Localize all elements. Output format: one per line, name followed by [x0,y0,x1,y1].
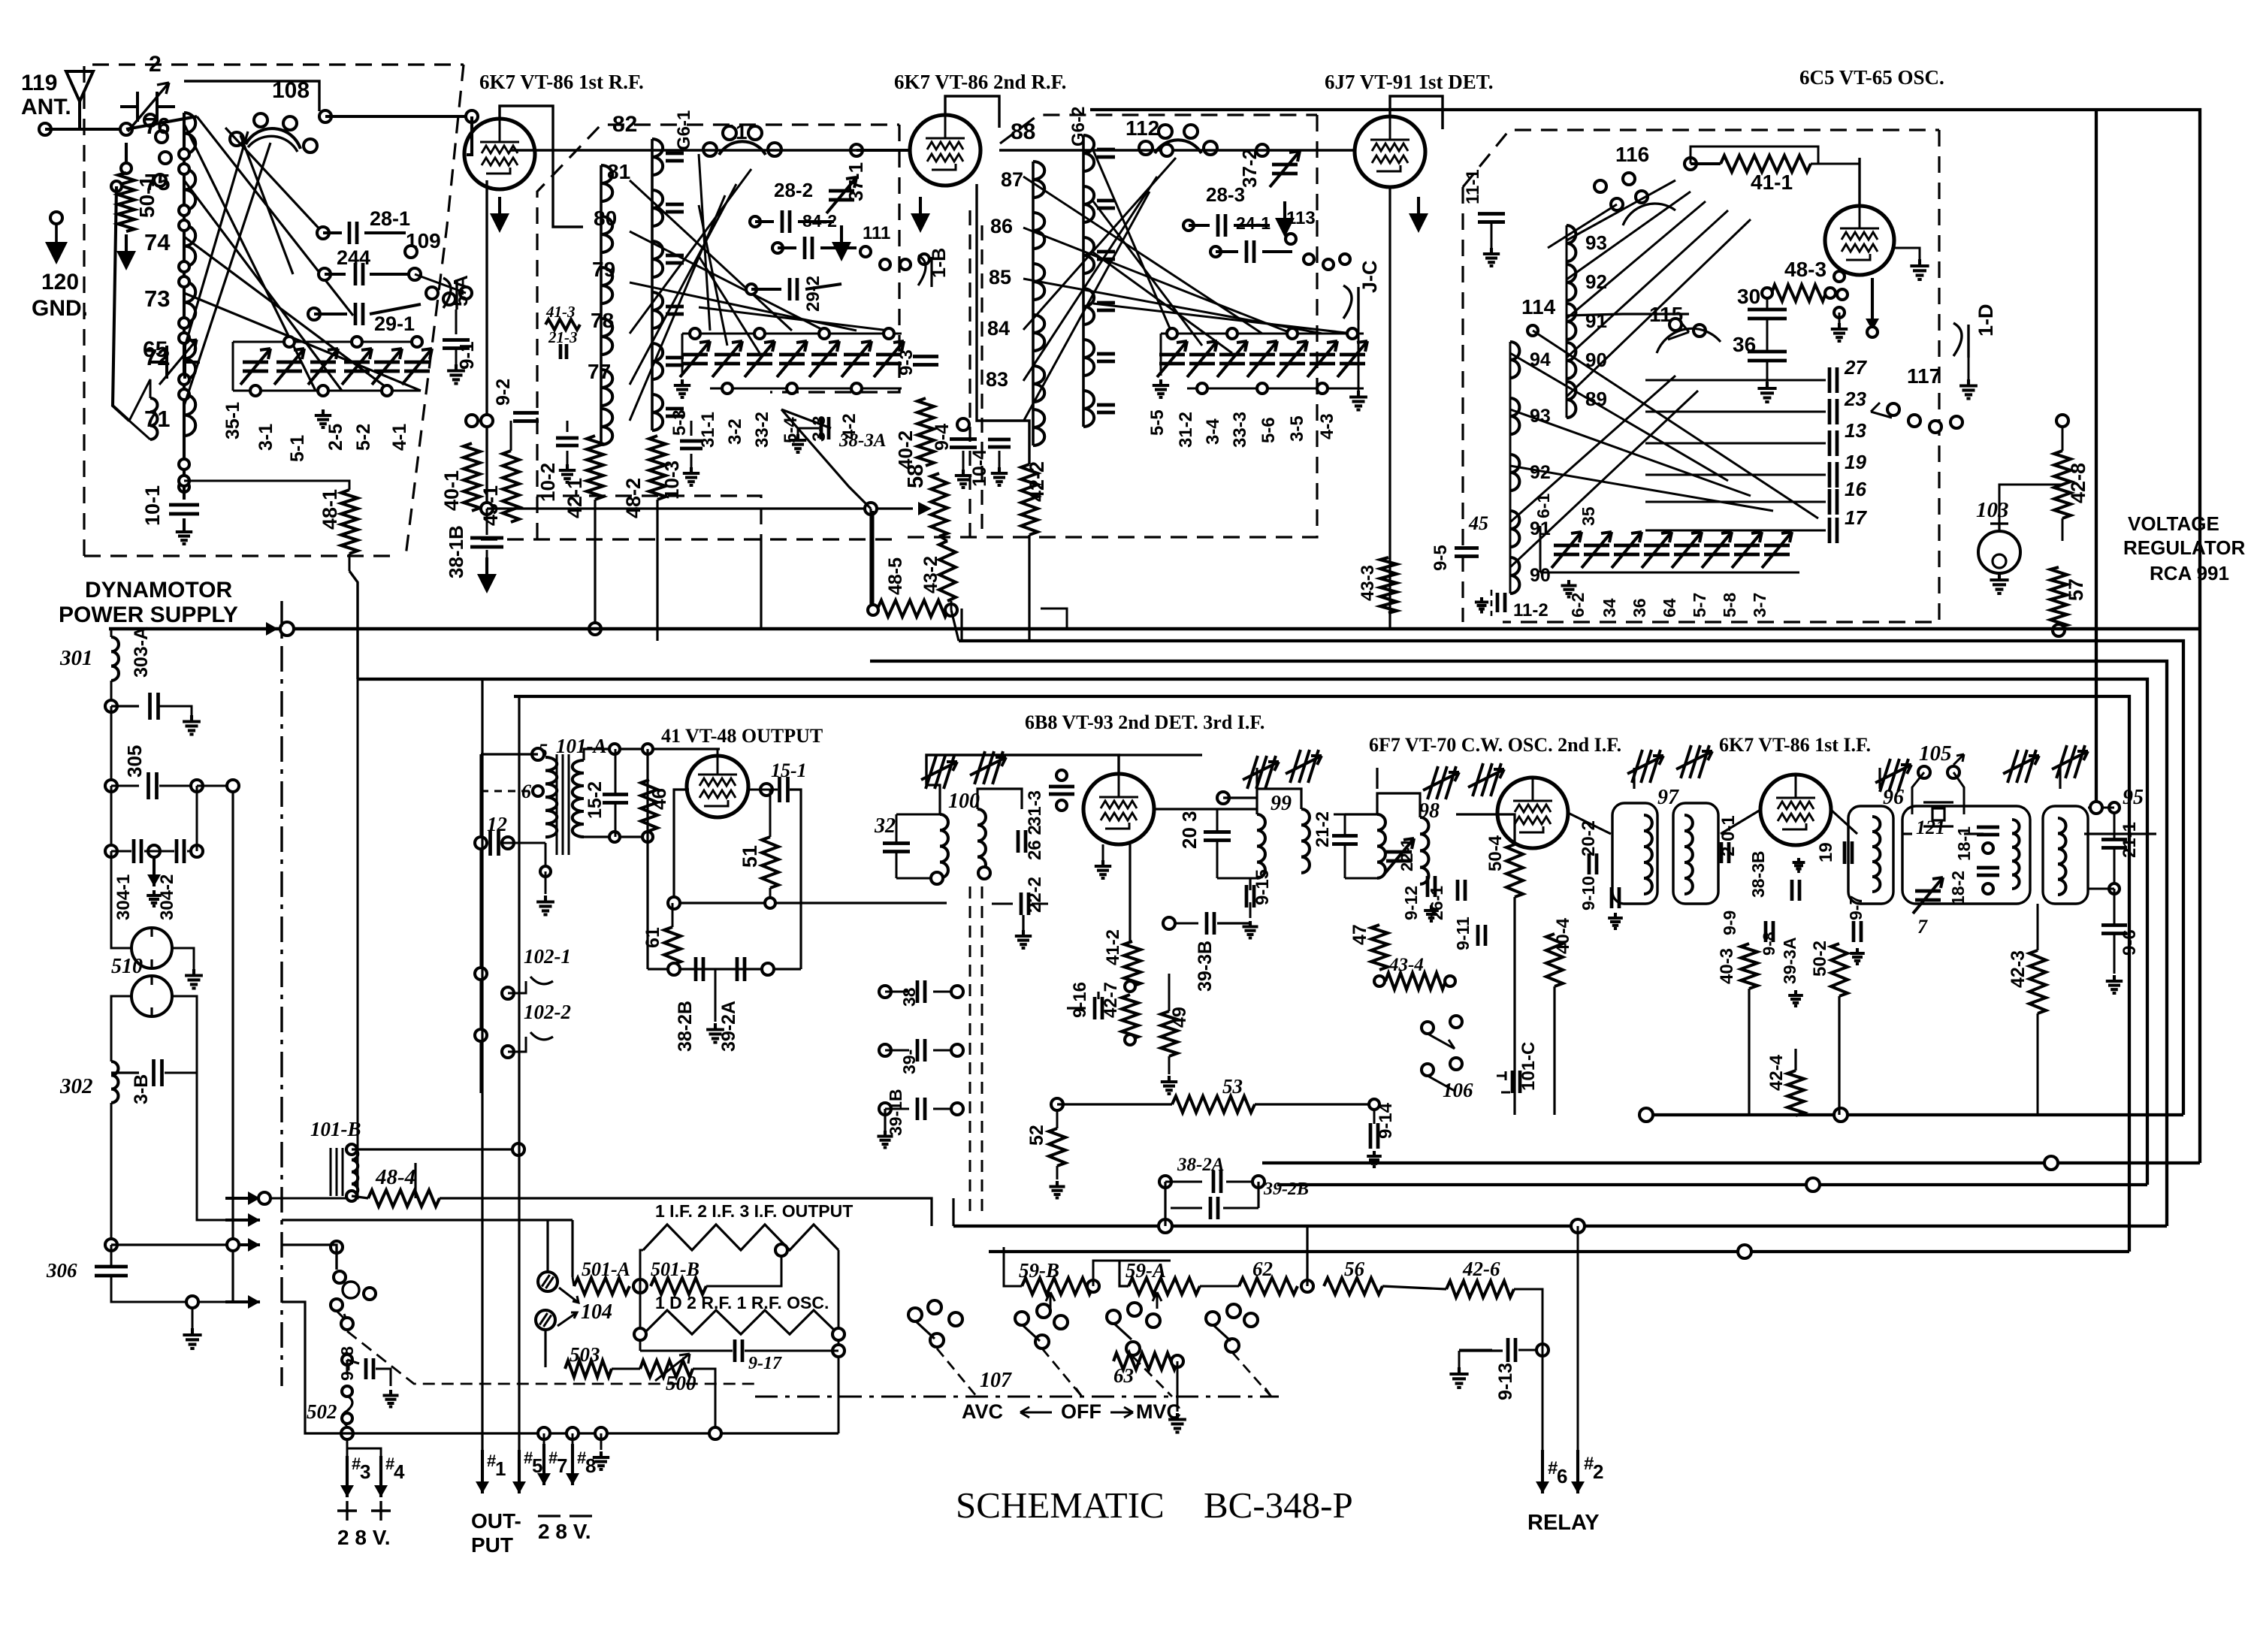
svg-text:16: 16 [1845,478,1866,500]
capacitor 38-1B [481,503,493,515]
svg-text:2 8 V.: 2 8 V. [538,1520,591,1543]
solid top line to right edge [1090,110,2200,1163]
osc cathode leads [1834,271,1845,282]
switch group 3 [1107,1310,1120,1324]
svg-text:35: 35 [1579,506,1598,526]
svg-text:SCHEMATIC: SCHEMATIC [956,1484,1165,1526]
wire vertical x310 [231,786,234,1302]
bus line 4 [358,679,2147,1185]
coil in crystal frame [2012,820,2020,889]
svg-text:108: 108 [272,78,310,103]
capacitor 9-1 [455,310,458,334]
coil 75 [184,169,195,210]
dashed box antenna section [84,65,464,556]
wire lead 1 [481,679,483,1475]
ground 38-2B [715,969,717,1022]
wire osc grid to det [1441,110,1443,129]
trimmers above 97 [1423,766,1459,799]
svg-text:1 D 2 R.F. 1 R.F. OSC.: 1 D 2 R.F. 1 R.F. OSC. [655,1293,829,1312]
svg-text:20 3: 20 3 [1178,811,1201,849]
svg-text:105: 105 [1919,741,1952,766]
svg-text:117: 117 [1907,364,1941,388]
svg-text:111: 111 [863,223,890,243]
coil 71 lower [150,398,157,439]
svg-text:9-7: 9-7 [1846,895,1866,920]
svg-text:41 VT-48 OUTPUT: 41 VT-48 OUTPUT [661,725,823,747]
wire 48-1 to bus4 [349,571,358,679]
svg-text:112: 112 [1125,116,1159,140]
wire 48-5 to bus [872,511,875,609]
svg-text:VOLTAGE: VOLTAGE [2128,512,2219,535]
diagonal to 38-3A [781,409,871,509]
resistor 43-2 vertical [939,541,956,601]
wire plate top V1 [500,106,583,227]
svg-text:9-11: 9-11 [1453,917,1473,950]
capacitor 38-3A [790,434,806,452]
capacitor 9-13 [1508,1338,1515,1362]
fan osc upper [1567,180,1675,240]
tube V6 6B8 [1083,774,1154,844]
svg-text:84-2: 84-2 [802,211,837,231]
svg-text:56: 56 [1344,1258,1365,1280]
bottom rail [347,1432,838,1434]
ground terminal 120 [50,212,62,224]
trimmer row box D [1539,526,1542,572]
wire V2 cathode down to 42-2 [977,184,1029,464]
bus line B+ main [109,627,2200,630]
svg-text:10-3: 10-3 [660,461,683,500]
fan of wires box C [1023,177,1262,334]
svg-text:96: 96 [1883,786,1904,809]
svg-text:45: 45 [1468,512,1488,534]
svg-text:ANT.: ANT. [21,95,71,119]
svg-text:27: 27 [1844,356,1867,379]
ground V8 [1793,858,1805,871]
svg-text:38-1B: 38-1B [445,525,467,578]
capacitor 10-4 [988,439,1011,447]
svg-text:114: 114 [1521,295,1556,319]
svg-text:46: 46 [648,788,670,810]
wire antenna to switch [80,128,126,131]
wire long vertical 1 [414,1163,416,1198]
svg-text:64: 64 [1660,598,1679,618]
trimmer above 96 [1875,759,1911,792]
wire y1290 [648,968,801,970]
resistor 48-5 [878,600,949,617]
svg-text:9-2: 9-2 [493,379,514,406]
svg-text:81: 81 [607,160,630,183]
svg-text:107: 107 [980,1369,1012,1392]
svg-text:39-3A: 39-3A [1780,937,1799,984]
svg-text:1 I.F. 2 I.F. 3 I.F. OUTPUT: 1 I.F. 2 I.F. 3 I.F. OUTPUT [655,1201,853,1221]
trimmer 22-1 etc inside 98 [1386,852,1412,861]
svg-text:5: 5 [532,1454,542,1477]
wire right verticals to IF strip [2095,678,2097,680]
svg-text:32: 32 [874,814,896,838]
wire osc top loop [1691,146,1818,164]
svg-text:38-3A: 38-3A [838,430,887,451]
svg-text:1-D: 1-D [1975,304,1997,337]
coil 74 [184,225,195,267]
svg-text:304-2: 304-2 [157,874,177,920]
svg-text:65: 65 [143,337,168,362]
svg-text:31-3: 31-3 [1025,790,1045,826]
svg-text:POWER SUPPLY: POWER SUPPLY [59,603,238,627]
svg-text:99: 99 [1271,792,1292,815]
wire to 58 [487,507,913,509]
svg-text:244: 244 [337,246,370,269]
svg-text:116: 116 [1615,143,1649,166]
plus marks 28V [337,1501,391,1521]
svg-text:121: 121 [1916,817,1945,838]
svg-text:101-A: 101-A [556,735,607,757]
svg-text:502: 502 [307,1400,337,1423]
wire bus 1630 nodes [952,1198,954,1226]
svg-text:5-2: 5-2 [353,424,374,451]
wire reg to bus [1999,485,2062,496]
svg-text:53: 53 [1222,1075,1243,1098]
resistor 52 [1049,1128,1065,1166]
svg-text:8: 8 [585,1454,596,1477]
dashed box C [1000,115,1317,143]
capacitor 9-8 [1766,921,1773,942]
capacitor 303-B [110,1071,113,1074]
svg-text:9-10: 9-10 [1579,876,1598,911]
resistor 49 [1161,1011,1177,1056]
svg-text:73: 73 [144,285,170,312]
wire #6 #2 leads [1542,1293,1544,1475]
capacitor 9-16 [1095,997,1102,1019]
svg-text:30: 30 [1737,285,1760,308]
svg-text:7: 7 [1917,916,1928,938]
capacitor 11-1 [1478,214,1505,222]
svg-text:86: 86 [990,215,1013,237]
svg-text:40-3: 40-3 [1717,948,1737,984]
svg-text:106: 106 [1443,1079,1473,1101]
svg-text:17: 17 [1845,506,1867,529]
lamps 104 [538,1272,557,1291]
resistor 42-2 [1021,464,1038,535]
svg-text:5-3: 5-3 [669,409,690,436]
svg-text:2 8 V.: 2 8 V. [337,1526,391,1549]
svg-text:19: 19 [1816,842,1836,862]
svg-text:98: 98 [1419,799,1440,823]
svg-text:11-1: 11-1 [1463,169,1483,204]
svg-text:50-2: 50-2 [1810,941,1830,977]
wire 6B8 top loop [926,755,1119,785]
svg-text:6B8 VT-93 2nd DET. 3rd I.F.: 6B8 VT-93 2nd DET. 3rd I.F. [1025,711,1264,733]
svg-text:503: 503 [570,1343,600,1366]
resistor 40-1 [464,443,480,511]
wire from bus to IF cans B+ [1255,768,1258,789]
caps 304-1 304-2 [110,786,113,851]
trimmer row box B (5-3,31-1,3-2,33-2,5-4,3-3,4-2) [682,333,902,335]
wire osc plate [1858,158,1860,206]
svg-text:3: 3 [360,1460,370,1483]
resistor 42-8 [2054,451,2071,518]
capacitor 29-1 [308,308,320,320]
svg-text:52: 52 [1026,1125,1047,1146]
svg-text:22-1: 22-1 [1397,838,1416,871]
resistor 41-2 [1124,941,1141,986]
svg-text:95: 95 [2123,786,2144,809]
svg-text:G6-1: G6-1 [674,110,694,150]
resistor 50-2 [1831,944,1848,996]
svg-text:41-2: 41-2 [1103,929,1123,965]
svg-text:43-4: 43-4 [1388,955,1424,975]
capacitor 10-2 [567,421,569,432]
svg-text:48-3: 48-3 [1784,258,1826,281]
resistor 57 [2050,567,2067,627]
resistor 48-2 [649,436,666,500]
coil 76 [184,113,195,154]
svg-text:76: 76 [144,113,170,139]
svg-text:47: 47 [1349,924,1370,945]
svg-text:39-2B: 39-2B [1263,1179,1309,1199]
dashed box D osc [1463,130,1939,187]
svg-text:PUT: PUT [471,1533,513,1557]
svg-text:48-2: 48-2 [622,478,645,518]
capacitor 28-1 [317,227,329,239]
svg-text:6F7 VT-70 C.W. OSC. 2nd I.F.: 6F7 VT-70 C.W. OSC. 2nd I.F. [1369,734,1621,756]
svg-text:104: 104 [581,1300,612,1324]
relay lead arrow [1871,278,1874,331]
svg-text:77: 77 [588,360,611,383]
wire plate top V2 [945,96,999,128]
svg-text:11-2: 11-2 [1513,600,1549,621]
wire top to tube grid [319,110,331,122]
can 100 right winding wires [977,789,1022,809]
svg-text:500: 500 [666,1372,696,1394]
svg-text:48-1: 48-1 [319,489,341,530]
svg-text:10-4: 10-4 [969,449,990,487]
svg-text:GND.: GND. [32,296,88,321]
svg-text:MVC: MVC [1136,1400,1181,1423]
coil 71 [184,394,195,436]
svg-text:38-3B: 38-3B [1748,850,1768,898]
switch rotor 108 box [184,81,319,111]
svg-text:92: 92 [1585,270,1607,293]
svg-text:39-2A: 39-2A [718,1001,739,1052]
svg-text:38-2B: 38-2B [675,1001,696,1052]
svg-text:40-2: 40-2 [894,430,917,470]
coil column B right [652,139,663,175]
resistor 40-4 [1546,934,1563,986]
svg-text:7: 7 [557,1454,567,1477]
lower bus y1577 [1277,1183,2147,1186]
bus line 3 [870,661,2167,1226]
tube V5 output [687,756,748,817]
varcap 7 [1915,891,1941,900]
svg-text:6K7 VT-86 1st I.F.: 6K7 VT-86 1st I.F. [1719,734,1871,756]
svg-text:OFF: OFF [1061,1400,1101,1423]
dashed shield lines near 100 [969,886,971,1213]
svg-text:33-2: 33-2 [752,412,772,448]
svg-text:18-2: 18-2 [1948,871,1968,905]
svg-text:304-1: 304-1 [113,874,134,920]
svg-text:3-2: 3-2 [725,418,745,445]
resistor 43-4 [1385,973,1446,989]
left rail [479,754,482,1093]
svg-text:6J7 VT-91 1st DET.: 6J7 VT-91 1st DET. [1325,71,1494,93]
ground right of switches [1449,1367,1468,1388]
lower bus y1632 [953,1225,2167,1228]
svg-text:3-7: 3-7 [1750,593,1769,618]
svg-text:2-5: 2-5 [325,424,346,451]
svg-text:88: 88 [1011,119,1035,144]
coil 72 [184,338,195,379]
capacitor 305 [110,706,113,781]
coil 73 [184,282,195,323]
svg-text:5-1: 5-1 [287,435,308,462]
switch group 1 [908,1308,922,1321]
svg-text:61: 61 [642,927,663,948]
capacitor 9-17 [640,1350,733,1352]
wire V1 cathode down [485,180,488,509]
svg-text:9-9: 9-9 [1720,911,1739,935]
wire y1202 [674,902,947,904]
resistor 40-2 [917,398,934,466]
svg-text:3-1: 3-1 [255,424,276,451]
resistor 42-1 [587,436,603,500]
capacitor 9-3 [913,357,938,365]
svg-text:9-5: 9-5 [1431,545,1451,571]
wire plate top V3 [1390,96,1443,129]
svg-text:4-1: 4-1 [389,424,410,451]
svg-text:78: 78 [591,309,614,332]
svg-text:306: 306 [46,1259,77,1282]
svg-text:9-12: 9-12 [1401,886,1421,920]
lower bus y1666 [989,1250,2129,1253]
svg-text:48-4: 48-4 [375,1165,415,1189]
resistor 51 [762,837,778,888]
separator dash-dot vertical [280,601,283,1386]
switch contacts near 106 [1422,1022,1434,1034]
svg-text:75: 75 [144,169,170,195]
svg-text:28-2: 28-2 [774,179,813,201]
wire 101A top [532,748,544,760]
svg-text:33-3: 33-3 [1230,412,1250,448]
bus line 2 [959,641,2183,1115]
tube V2 6K7 2nd RF [910,115,980,186]
arrow entry feeds [282,1219,573,1221]
wire from bus4 down left [257,679,358,1198]
capacitor 9-7 [1854,921,1861,942]
svg-text:26 2: 26 2 [1025,825,1045,860]
svg-text:82: 82 [612,112,637,137]
svg-text:21-2: 21-2 [1313,811,1333,847]
resistor 50-1 [125,143,128,164]
svg-text:3-4: 3-4 [1203,418,1223,445]
wire bottom of column [183,460,186,481]
svg-text:43-2: 43-2 [920,556,941,593]
resistor 42-4 [1787,1071,1804,1116]
dashed link 502 [347,1331,755,1384]
wire sw [126,116,197,129]
svg-text:42-8: 42-8 [2067,463,2089,503]
svg-text:29-2: 29-2 [803,276,823,312]
svg-text:42-2: 42-2 [1026,461,1048,502]
trimmer 37-2 [1272,165,1298,174]
svg-text:6-2: 6-2 [1568,593,1588,618]
antenna 119 [66,71,93,129]
resistor 61 [664,927,681,965]
resistor 47 [1371,925,1388,970]
svg-text:5-7: 5-7 [1690,593,1709,618]
coil bank osc left (94..89) [1548,204,1617,248]
trimmers above 95 [2003,750,2039,783]
wire grid V2 left [851,144,863,156]
svg-text:G6-2: G6-2 [1068,107,1089,146]
switch 502 contacts [331,1241,343,1253]
wire 1657 bus [111,1243,233,1246]
svg-text:4-3: 4-3 [1317,413,1337,439]
svg-text:6-1: 6-1 [1533,494,1553,518]
svg-text:42-1: 42-1 [564,478,586,518]
svg-text:9-3: 9-3 [896,349,917,376]
svg-text:101-B: 101-B [310,1118,361,1140]
rotary switch 108 [246,128,301,149]
svg-text:REGULATOR: REGULATOR [2123,536,2245,559]
capacitor 244 [319,268,331,280]
leads #3 #4 [346,1456,349,1475]
resistor 42-7 [1122,995,1138,1040]
svg-text:42-6: 42-6 [1462,1258,1500,1280]
svg-text:9-4: 9-4 [932,424,953,451]
svg-text:36: 36 [1630,598,1649,618]
svg-text:4: 4 [394,1460,405,1483]
svg-text:3-5: 3-5 [1287,415,1307,442]
svg-text:302: 302 [59,1074,93,1098]
svg-text:43-3: 43-3 [1358,565,1378,601]
svg-text:9-17: 9-17 [748,1354,782,1373]
svg-text:58: 58 [904,464,928,488]
wire 6B8 to 99 [1154,808,1217,810]
svg-text:49: 49 [1169,1007,1190,1028]
svg-text:19: 19 [1845,451,1866,473]
crystal network frame [1902,806,2030,904]
tube V1 6K7 1st RF [464,119,535,189]
capacitor 10-1 [183,487,186,500]
svg-text:102-1: 102-1 [524,945,571,968]
transformer secondary frame [584,835,648,838]
trimmers above 99 [1243,756,1279,789]
trimmer 37-1 [829,191,854,200]
wire ant lead [45,128,80,131]
svg-text:119: 119 [21,71,57,95]
chain frame wires [640,1250,643,1351]
capacitor 29-2 [746,284,757,294]
capacitor 9-11 [1478,925,1485,946]
resistor 48-1 [179,476,189,486]
capacitor 9-4 [957,418,969,430]
svg-text:2: 2 [1593,1460,1603,1483]
wire 6B8 to 41-2 [1129,844,1131,941]
capacitor 1-B [918,255,926,285]
tube V8 6K7 1st IF [1760,775,1831,845]
svg-text:5-6: 5-6 [1258,417,1279,443]
svg-text:18-1: 18-1 [1954,826,1974,861]
svg-text:2: 2 [149,52,162,77]
svg-text:41-1: 41-1 [1751,171,1793,194]
resistor 50-4 [1506,844,1523,897]
wire 42-4 to bus [1794,1115,1796,1116]
switch group 2 [1015,1312,1029,1325]
wire [467,116,472,155]
svg-text:39-1B: 39-1B [886,1089,905,1136]
wire fan antenna coils to caps [184,124,316,391]
pot 500 [640,1361,693,1377]
